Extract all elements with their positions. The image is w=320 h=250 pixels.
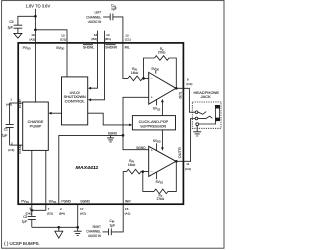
capacitor C3 — [14, 25, 23, 33]
headphone jack dashed box — [192, 102, 221, 128]
label SVSS U2 stub — [156, 172, 158, 179]
svg-text:OUTR: OUTR — [178, 146, 182, 158]
resistor RIN left 14k — [128, 76, 149, 81]
jack sleeve contact — [196, 123, 199, 126]
svg-text:14: 14 — [106, 33, 110, 37]
svg-text:C3: C3 — [9, 20, 13, 24]
wire U2 feedback — [143, 172, 154, 192]
svg-text:3: 3 — [11, 141, 13, 145]
svg-text:PUMP: PUMP — [30, 124, 42, 128]
wire OUTR to jack — [176, 119, 195, 162]
pin 3 (C4) C1N — [10, 144, 23, 146]
label SVDD U2 stub — [156, 143, 158, 151]
svg-text:SHUTDOWN: SHUTDOWN — [64, 95, 87, 99]
svg-text:PGND: PGND — [61, 199, 71, 203]
svg-text:9: 9 — [187, 77, 189, 81]
svg-text:SGND: SGND — [80, 199, 90, 203]
capacitor CIN left — [110, 14, 113, 21]
svg-text:(D3): (D3) — [47, 211, 53, 215]
svg-text:11: 11 — [186, 162, 189, 166]
svg-text:(A1): (A1) — [125, 211, 131, 215]
svg-text:(A2): (A2) — [80, 211, 86, 215]
node U2 output — [175, 160, 178, 163]
svg-text:(D2): (D2) — [186, 82, 192, 86]
svg-text:1µF: 1µF — [110, 223, 116, 227]
border frame — [2, 1, 224, 249]
svg-text:(C2): (C2) — [185, 167, 191, 171]
resistor RF left 27k — [155, 56, 177, 89]
wire audio-in lead — [103, 16, 110, 18]
wire branch to BVDD pin 10 — [35, 30, 67, 44]
node U1 output — [175, 87, 178, 90]
ground earth internal — [107, 135, 114, 142]
wire UVLO to charge pump — [51, 112, 62, 114]
node supply/C3 junction — [34, 15, 37, 18]
svg-text:(C4): (C4) — [8, 148, 14, 152]
internal SGND net — [59, 135, 123, 203]
capacitor C2 — [28, 216, 36, 227]
svg-text:27kΩ: 27kΩ — [157, 197, 165, 201]
wire OUTL to jack — [176, 88, 195, 112]
op-amp U1 left channel — [149, 72, 176, 104]
label SVDD U1 — [155, 70, 157, 73]
svg-text:1µF: 1µF — [2, 134, 8, 138]
svg-text:(B2): (B2) — [91, 37, 97, 41]
svg-text:(B4): (B4) — [59, 211, 65, 215]
capacitor CIN right — [109, 229, 112, 236]
capacitor C1 — [6, 103, 14, 145]
arrow into UVLO from SHDNL — [88, 87, 91, 90]
bottom pin PVSS 6 (D4) — [31, 150, 33, 216]
svg-text:C2: C2 — [23, 215, 27, 219]
IC body MAX4411 — [18, 43, 183, 204]
wire audio-in lead right — [103, 231, 109, 233]
wire click-pop to U1 with up arrow — [161, 102, 163, 116]
wire INR from pin up to RIN right — [111, 172, 126, 232]
wire CIN to INL pin 13 and down to RIN — [113, 17, 128, 79]
svg-text:(A4): (A4) — [6, 103, 12, 107]
svg-text:(B1): (B1) — [105, 37, 111, 41]
wire click-pop to U2 with down arrow — [161, 130, 163, 148]
wire ground bus bottom — [32, 226, 78, 228]
svg-text:1µF: 1µF — [22, 220, 28, 224]
svg-text:1µF: 1µF — [7, 26, 13, 30]
svg-text:AUDIO IN: AUDIO IN — [88, 233, 101, 238]
arrow into charge pump — [48, 112, 51, 115]
svg-text:INL: INL — [125, 45, 130, 49]
svg-text:C1P: C1P — [18, 99, 22, 108]
svg-text:AUDIO IN: AUDIO IN — [88, 19, 101, 24]
bottom pin SVSS 7 (D3) — [32, 150, 46, 210]
svg-text:C1N: C1N — [18, 145, 22, 154]
svg-text:27kΩ: 27kΩ — [158, 50, 166, 54]
pin 18 SHDNL stub — [90, 31, 97, 89]
node U1 inverting input — [142, 77, 145, 80]
charge pump box — [23, 102, 49, 150]
node PVSS/SVSS join — [30, 209, 33, 212]
svg-text:14kΩ: 14kΩ — [131, 71, 139, 75]
wire branch to C3 — [18, 16, 36, 25]
pin 14 SHDNR stub — [90, 31, 104, 100]
svg-text:−: − — [151, 170, 153, 174]
svg-text:JACK: JACK — [201, 95, 212, 99]
resistor RF right 27k — [154, 161, 176, 193]
node U2 inverting input — [141, 170, 144, 173]
ground triangle under PGND — [55, 227, 63, 238]
wire UVLO to click-and-pop (step) — [88, 113, 130, 125]
svg-text:SUPPRESSION: SUPPRESSION — [140, 125, 166, 129]
svg-text:1.8V TO 3.6V: 1.8V TO 3.6V — [26, 4, 51, 9]
svg-text:INR: INR — [125, 199, 131, 203]
resistor RIN right 14k — [127, 169, 149, 174]
svg-text:7: 7 — [48, 207, 50, 211]
svg-text:−: − — [151, 76, 153, 80]
svg-text:+: + — [151, 148, 153, 152]
UVLO/shutdown control box — [62, 77, 88, 125]
arrow into click-and-pop — [129, 124, 132, 127]
click-and-pop suppression box — [132, 116, 175, 130]
node supply/BVDD junction — [34, 28, 37, 31]
ground triangle under C3 — [14, 33, 22, 38]
svg-text:+: + — [151, 95, 153, 99]
jack plug bar — [215, 105, 219, 120]
label SVSS U1 stub — [156, 99, 158, 105]
svg-text:1µF: 1µF — [111, 7, 117, 11]
svg-text:15: 15 — [125, 207, 129, 211]
svg-text:(D1): (D1) — [60, 38, 66, 42]
label SGND pin 17 (A2) — [77, 204, 79, 228]
svg-text:CONTROL: CONTROL — [65, 100, 85, 104]
svg-text:18: 18 — [94, 33, 98, 37]
svg-text:14kΩ: 14kΩ — [128, 163, 136, 167]
svg-text:(C1): (C1) — [125, 38, 131, 42]
pin 1 (A4) C1P — [10, 102, 23, 104]
node PGND/bus — [57, 226, 60, 229]
svg-text:( ) UCSP BUMPS.: ( ) UCSP BUMPS. — [4, 241, 40, 246]
svg-text:19: 19 — [31, 33, 35, 37]
svg-text:C1: C1 — [4, 128, 8, 132]
op-amp U2 right channel — [149, 146, 176, 176]
svg-text:CLICK-AND-POP: CLICK-AND-POP — [139, 120, 169, 124]
svg-text:MAX4411: MAX4411 — [76, 165, 99, 171]
wire BVDD to UVLO — [66, 43, 68, 77]
svg-text:SGND: SGND — [136, 146, 146, 150]
ground earth under SGND — [74, 227, 82, 235]
svg-text:SHDNL: SHDNL — [83, 45, 94, 49]
wire U1 plus input from SGND — [123, 97, 149, 149]
jack ring contact — [195, 117, 198, 120]
svg-text:(A3): (A3) — [29, 38, 35, 42]
jack tip contact — [195, 111, 198, 114]
wire U1 feedback — [144, 58, 155, 78]
svg-text:17: 17 — [80, 207, 84, 211]
svg-text:SGND: SGND — [108, 131, 118, 135]
svg-text:2: 2 — [60, 207, 62, 211]
svg-text:1: 1 — [10, 97, 12, 101]
arrow into UVLO from SHDNR — [88, 98, 91, 101]
ground earth under jack — [193, 126, 201, 136]
svg-text:SHDNR: SHDNR — [105, 45, 117, 49]
wire PVDD to charge pump — [34, 43, 36, 102]
wire supply vertical to PVDD pin 19 — [34, 9, 36, 44]
node SGND/bus — [76, 226, 79, 229]
svg-text:OUTL: OUTL — [178, 91, 182, 98]
